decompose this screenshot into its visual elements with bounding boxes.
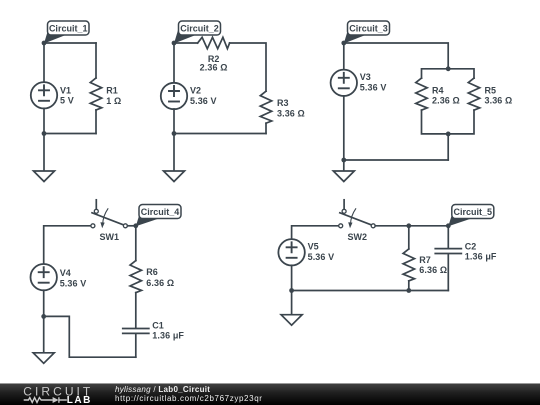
- wire R6 to C1: [135, 293, 137, 328]
- wire R3 bottom lead: [265, 123, 267, 133]
- resistor R5: [468, 78, 479, 110]
- svg-text:1 Ω: 1 Ω: [106, 96, 121, 106]
- switch SW2: [339, 200, 376, 228]
- svg-text:3.36 Ω: 3.36 Ω: [485, 95, 513, 105]
- resistor R3: [260, 91, 271, 123]
- wire parallel branch bottom circuit 3: [422, 110, 475, 134]
- wire top rail circuit 1: [44, 42, 96, 44]
- wire C2 bottom lead: [447, 254, 449, 290]
- svg-text:2.36 Ω: 2.36 Ω: [200, 62, 228, 72]
- junction node circuit 4 bottom: [41, 314, 46, 319]
- resistor R4: [416, 78, 427, 110]
- svg-text:6.36 Ω: 6.36 Ω: [419, 265, 447, 275]
- node dot C2 top: [446, 223, 451, 228]
- svg-text:Circuit_3: Circuit_3: [349, 24, 388, 34]
- svg-text:1.36 μF: 1.36 μF: [152, 330, 184, 340]
- wire top rail circuit 3: [344, 43, 448, 69]
- wire R7 bottom lead: [408, 281, 410, 291]
- resistor R2: [198, 37, 230, 48]
- junction node circuit 1 bottom: [42, 131, 47, 136]
- svg-text:R6: R6: [146, 267, 158, 277]
- svg-text:Circuit_5: Circuit_5: [454, 207, 493, 217]
- svg-text:R1: R1: [106, 85, 118, 95]
- wire V5 bottom lead: [291, 265, 293, 290]
- svg-text:V5: V5: [308, 242, 319, 252]
- svg-text:LAB: LAB: [67, 395, 92, 405]
- wire V3 bottom lead: [343, 96, 345, 160]
- svg-text:5.36 V: 5.36 V: [360, 82, 387, 92]
- wire R6 top lead: [135, 226, 137, 261]
- svg-text:SW2: SW2: [348, 232, 368, 242]
- ground circuit 2: [164, 171, 185, 182]
- resistor R6: [130, 261, 141, 293]
- wire top-left circuit 5: [292, 226, 339, 240]
- wire bottom rail circuit 2: [174, 133, 266, 135]
- svg-text:C1: C1: [152, 321, 164, 331]
- net label Circuit_1: [48, 21, 90, 35]
- svg-text:5.36 V: 5.36 V: [308, 252, 335, 262]
- net label tail Circuit_2: [174, 30, 196, 44]
- wire top-right circuit 2: [230, 43, 266, 91]
- wire V3 top lead: [343, 43, 345, 70]
- voltage source V5: [278, 239, 304, 265]
- svg-text:2.36 Ω: 2.36 Ω: [432, 95, 460, 105]
- wire V2 bottom lead: [173, 109, 175, 134]
- net label tail Circuit_5: [448, 213, 472, 226]
- wire bottom rail circuit 1: [44, 133, 96, 135]
- svg-text:Circuit_1: Circuit_1: [49, 24, 88, 34]
- svg-text:R3: R3: [277, 98, 289, 108]
- net label Circuit_4: [139, 205, 181, 219]
- net label Circuit_3: [348, 21, 390, 35]
- svg-text:1.36 μF: 1.36 μF: [465, 251, 497, 261]
- ground circuit 4: [33, 353, 54, 364]
- wire R1 bottom lead: [95, 110, 97, 134]
- wire bottom return circuit 4: [44, 316, 136, 357]
- wire V4 bottom lead: [43, 290, 45, 316]
- net label tail Circuit_1: [44, 30, 66, 44]
- wire down from parallel pair: [447, 134, 449, 160]
- resistor R1: [90, 78, 101, 110]
- svg-text:6.36 Ω: 6.36 Ω: [146, 278, 174, 288]
- wire switch to node circuit 4: [127, 225, 135, 227]
- wire C2 top lead: [447, 226, 449, 248]
- svg-text:V4: V4: [60, 268, 71, 278]
- node dot circuit 4: [133, 223, 138, 228]
- footer bar: [0, 383, 540, 384]
- ground circuit 3: [333, 171, 354, 182]
- svg-text:SW1: SW1: [100, 232, 120, 242]
- svg-text:C2: C2: [465, 242, 477, 252]
- wire top-left circuit 4: [44, 226, 91, 264]
- voltage source V2: [161, 83, 187, 109]
- wire bottom rail circuit 5: [292, 290, 449, 292]
- svg-text:Circuit_4: Circuit_4: [141, 207, 180, 217]
- wire parallel branch top circuit 3: [422, 69, 475, 78]
- ground circuit 5: [281, 315, 302, 326]
- node dot R7 top: [406, 223, 411, 228]
- svg-text:R7: R7: [419, 255, 431, 265]
- voltage source V4: [31, 264, 57, 290]
- svg-text:V2: V2: [190, 86, 201, 96]
- net label Circuit_5: [452, 205, 494, 219]
- junction node circuit 2 bottom: [172, 131, 177, 136]
- wire V1 top lead: [43, 43, 45, 82]
- switch SW1: [91, 200, 128, 228]
- wire R1 top lead: [95, 43, 97, 78]
- wire top-left lead circuit 2: [174, 42, 198, 44]
- junction node R7 bottom: [406, 288, 411, 293]
- footer text: [115, 386, 263, 403]
- junction node circuit 3 bottom-left: [341, 158, 346, 163]
- svg-text:V1: V1: [60, 86, 71, 96]
- wire to ground circuit 3: [343, 160, 345, 171]
- wire to ground circuit 1: [43, 134, 45, 172]
- node dot circuit 1 top: [42, 41, 47, 46]
- wire bottom rail circuit 3: [344, 159, 448, 161]
- wire to ground circuit 4: [43, 316, 45, 352]
- svg-text:V3: V3: [360, 72, 371, 82]
- wire to ground circuit 5: [291, 291, 293, 315]
- voltage source V1: [31, 82, 57, 108]
- svg-text:R5: R5: [485, 85, 497, 95]
- wire V2 top lead: [173, 43, 175, 83]
- CircuitLab logo: [0, 383, 110, 405]
- resistor R7: [403, 249, 414, 281]
- net label tail Circuit_3: [344, 30, 366, 44]
- svg-text:5.36 V: 5.36 V: [190, 96, 217, 106]
- svg-text:Circuit_2: Circuit_2: [180, 24, 219, 34]
- junction node circuit 5 bottom-left: [289, 288, 294, 293]
- capacitor C2: [435, 249, 461, 254]
- junction node circuit 3 mid-bottom: [446, 132, 451, 137]
- node dot circuit 2 top: [172, 41, 177, 46]
- wire V1 bottom lead: [43, 108, 45, 133]
- wire R7 top lead: [408, 226, 410, 249]
- capacitor C1: [123, 329, 149, 334]
- voltage source V3: [331, 70, 357, 96]
- ground circuit 1: [34, 171, 55, 182]
- node dot circuit 3 top-left: [341, 41, 346, 46]
- svg-text:3.36 Ω: 3.36 Ω: [277, 109, 305, 119]
- wire to ground circuit 2: [173, 134, 175, 172]
- svg-text:R4: R4: [432, 85, 444, 95]
- net label tail Circuit_4: [136, 213, 160, 226]
- svg-text:5 V: 5 V: [60, 95, 74, 105]
- svg-text:5.36 V: 5.36 V: [60, 279, 87, 289]
- wire C1 bottom lead: [135, 334, 137, 357]
- junction node circuit 3 top: [446, 66, 451, 71]
- net label Circuit_2: [179, 21, 221, 35]
- wire switch to R7 node circuit 5: [375, 225, 448, 227]
